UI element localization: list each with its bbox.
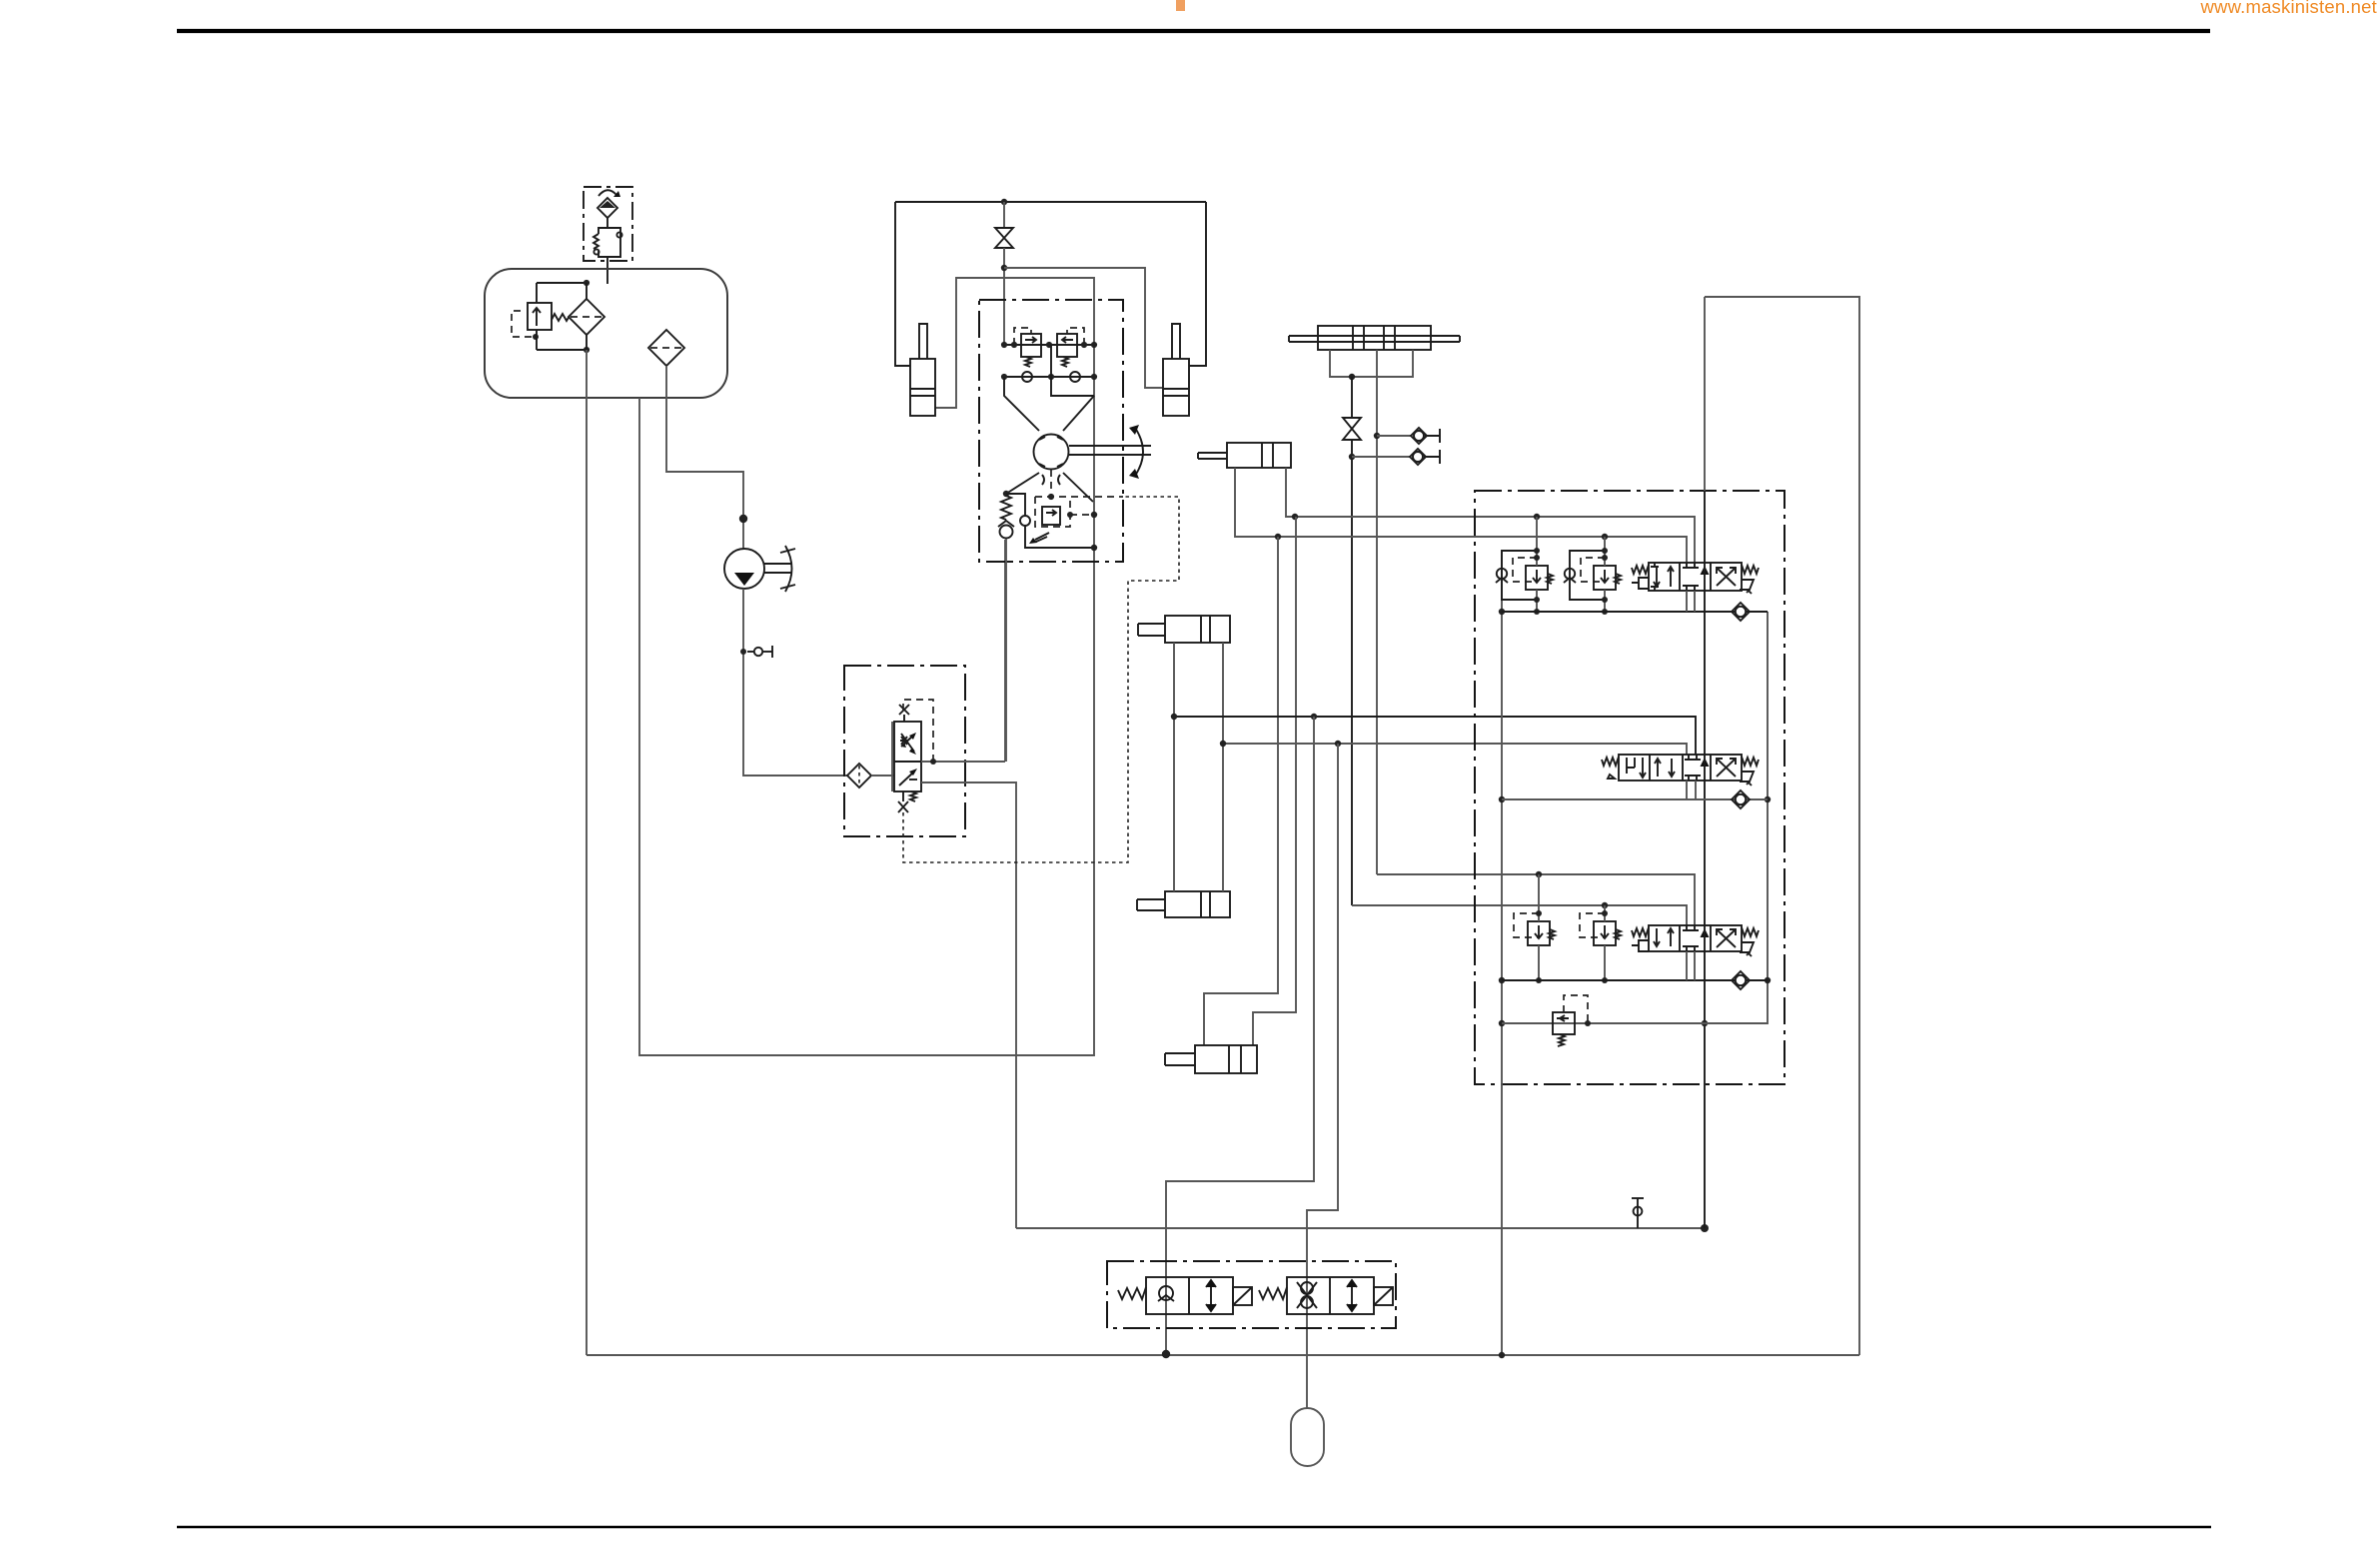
pilot out line A (921, 761, 1005, 763)
junction (1349, 374, 1355, 380)
junction (1602, 534, 1608, 540)
wire: arm feed A (1174, 717, 1696, 755)
pilot box (dash-dot) (844, 666, 965, 836)
junction (1602, 597, 1608, 603)
solenoid valve SV2 (1259, 1277, 1393, 1314)
wire: joint line A (1351, 377, 1353, 418)
pilot drain dashed (903, 497, 1179, 862)
wire: external frame (1705, 297, 1859, 1355)
load check CK1 (1732, 603, 1750, 621)
spool valve DV1 (1632, 563, 1759, 594)
junction (1081, 342, 1087, 348)
wire: left branch to cyl (895, 202, 910, 366)
junction (1091, 512, 1097, 518)
junction (1602, 555, 1608, 561)
wire: row3 feed A (1377, 874, 1695, 925)
wire: needle to right cylinder port (1004, 268, 1163, 388)
wire: aux cyl branch B (1253, 517, 1296, 1045)
junction (1091, 342, 1097, 348)
junction (1602, 902, 1608, 908)
makeup check rail (1004, 376, 1094, 378)
junction (1011, 342, 1017, 348)
load check CK2 (1732, 790, 1750, 808)
wire: tank gallery left (1501, 551, 1503, 1355)
breather relief valve (594, 218, 622, 284)
junction (1499, 977, 1505, 983)
breather vent arc (598, 190, 616, 196)
junction (1536, 977, 1542, 983)
double-rod cylinder CJ (1289, 326, 1460, 350)
wire: sol feed 2 (1307, 744, 1338, 1408)
motor legs (1004, 377, 1094, 502)
junction (584, 347, 590, 353)
wire: swing top header (895, 201, 1206, 203)
junction (1162, 1350, 1170, 1358)
junction (1534, 597, 1540, 603)
junction (1499, 1352, 1505, 1358)
shutoff needle valve V1 (995, 202, 1013, 345)
pump shaft + coupling (764, 546, 795, 592)
pilot reducing valve PRV (892, 722, 921, 791)
closed port X marks (899, 705, 909, 722)
wire: pilot to main galley (1016, 1227, 1705, 1229)
tank return filter F1 (569, 299, 604, 335)
junction (1702, 1020, 1708, 1026)
junction (1292, 514, 1298, 520)
makeup check C1 (1022, 372, 1032, 382)
port node (739, 515, 747, 523)
bottom rule (177, 1526, 2211, 1528)
solenoid box (dash-dot) (1107, 1261, 1396, 1328)
wire: aux cyl branch A (1204, 537, 1278, 1045)
logo remnant orange (1176, 0, 1185, 11)
breather box (dash-dot) (584, 187, 632, 261)
wire: makeup riser (1004, 540, 1006, 762)
tank suction strainer F2 (648, 330, 684, 366)
row1 bottom gallery (1502, 611, 1768, 613)
junction (1001, 199, 1007, 205)
spool valve DV3 (1632, 925, 1759, 956)
crossover relief RV2 (1057, 328, 1084, 367)
pump discharge line (743, 589, 847, 776)
junction (1311, 714, 1317, 720)
wire: sol feed 1 (1166, 717, 1314, 1354)
tank internal relief valve (512, 303, 570, 340)
junction (1765, 796, 1771, 802)
arm cylinder upper CA1 (1138, 616, 1230, 643)
wire: tank drain to swing gallery (639, 278, 1094, 1055)
port relief combo 1b (1564, 537, 1621, 615)
tank wiring bracket (537, 283, 587, 350)
wire: tank return main (586, 350, 588, 1355)
junction (1001, 265, 1007, 271)
control valve box (dash-dot) (1475, 491, 1785, 1084)
junction (1048, 494, 1054, 500)
junction (1765, 977, 1771, 983)
port relief combo 1a (1496, 517, 1553, 615)
top rule (177, 29, 2210, 33)
pilot filter F4 (847, 764, 871, 787)
junction (533, 334, 539, 340)
junction (1067, 512, 1073, 518)
junction (1001, 342, 1007, 348)
suction line (666, 366, 743, 549)
junction (740, 649, 746, 655)
junction (1602, 548, 1608, 554)
needle valve V2 (1343, 418, 1361, 440)
junction (1534, 555, 1540, 561)
junction (1701, 1224, 1709, 1232)
junction (1585, 1020, 1591, 1026)
junction (930, 759, 936, 765)
center tie (1051, 345, 1094, 396)
anti-void check + spring (998, 491, 1014, 762)
junction (584, 280, 590, 286)
main relief MR (1502, 995, 1768, 1046)
wire: arm pair left (1173, 643, 1175, 891)
test coupler TC2 (1349, 449, 1440, 465)
junction (1499, 796, 1505, 802)
pilot relief dashed line (1035, 496, 1123, 498)
rotation arrow (1135, 428, 1143, 476)
junction (1091, 545, 1097, 551)
pump P1 (724, 549, 764, 589)
row2 bottom gallery (1502, 798, 1768, 800)
breather filter F3 (597, 198, 617, 218)
pilot spring (910, 791, 916, 801)
junction (1534, 609, 1540, 615)
wire: blade rod feed (1286, 468, 1695, 563)
junction (1001, 374, 1007, 380)
spool valve DV2 (1602, 755, 1759, 785)
port relief PR (1029, 497, 1094, 544)
junction (1534, 548, 1540, 554)
junction (1275, 534, 1281, 540)
swing motor M1 (1034, 435, 1069, 470)
wire: arm pair right (1222, 643, 1224, 891)
pilot pilot-line dashed box (903, 700, 933, 762)
junction (1003, 491, 1009, 497)
junction (1534, 514, 1540, 520)
wire: row3 feed B (1352, 905, 1687, 925)
junction (1602, 609, 1608, 615)
wire: right branch to cyl (1189, 202, 1206, 366)
junction (1220, 741, 1226, 747)
blade cylinder CB (1198, 443, 1291, 468)
row3 bottom gallery (1502, 979, 1768, 981)
pilot out line B (921, 782, 1016, 1228)
crossover relief rail (1004, 344, 1094, 346)
cushion restrictor (1042, 475, 1060, 485)
port relief combo 3a (1514, 874, 1555, 983)
junction (1046, 342, 1052, 348)
junction (1335, 741, 1341, 747)
solenoid valve SV1 (1118, 1277, 1252, 1314)
motor shaft (1069, 446, 1151, 455)
junction (1048, 374, 1054, 380)
junction (1536, 871, 1542, 877)
arm cylinder lower CA2 (1137, 891, 1230, 917)
port relief combo 3b (1580, 905, 1621, 983)
junction (1349, 454, 1355, 460)
wire: bottom return header (587, 1354, 1859, 1356)
junction (1602, 910, 1608, 916)
wire: arm feed B (1223, 744, 1687, 755)
load check CK3 (1732, 971, 1750, 989)
junction (1602, 977, 1608, 983)
joint port box (1330, 350, 1413, 377)
junction (1091, 374, 1097, 380)
accumulator AC (1291, 1408, 1324, 1466)
test port T2 (1632, 1198, 1644, 1228)
junction (1499, 1020, 1505, 1026)
gauge loop (1006, 494, 1025, 516)
watermark url text (2200, 0, 2377, 18)
swing cylinder L (910, 324, 935, 416)
junction (1374, 433, 1380, 439)
wire: blade cap feed (1235, 468, 1687, 563)
supply arrows in spools (1701, 566, 1710, 937)
makeup check C2 (1070, 372, 1080, 382)
aux cylinder CX (1165, 1045, 1257, 1073)
crossover relief RV1 (1014, 328, 1041, 367)
test coupler TC1 (1374, 428, 1440, 444)
swing cylinder R (1163, 324, 1189, 416)
wire: joint line B (1376, 350, 1378, 874)
tank body (485, 269, 727, 398)
wire: return gallery right (1705, 612, 1768, 1023)
test port M (740, 646, 772, 658)
junction (1536, 910, 1542, 916)
swing motor box (dash-dot) (979, 300, 1123, 562)
junction (1171, 714, 1177, 720)
junction (1499, 609, 1505, 615)
